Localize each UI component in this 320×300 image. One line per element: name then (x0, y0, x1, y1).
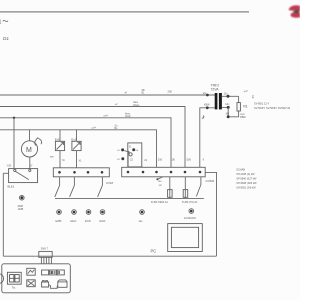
svg-text:PC: PC (151, 249, 157, 254)
contact K1 (55, 177, 60, 197)
twisted-wire hook mark (202, 116, 204, 118)
svg-text:KBW: KBW (204, 103, 210, 106)
wire tapB to tapC (227, 107, 229, 116)
svg-text:SH-2045 (A) kW: SH-2045 (A) kW (236, 173, 255, 176)
svg-text:SV-50/6T, SV-50/6T, SV50/3 44: SV-50/6T, SV-50/6T, SV50/3 44 (254, 106, 291, 110)
transformer primary bottom wire (200, 108, 215, 168)
battery lying icon (58, 280, 67, 287)
svg-text:Ta.: Ta. (12, 286, 16, 290)
Schumacher logo (289, 5, 300, 17)
fuse FU52 (168, 190, 173, 198)
display digit 8 (10, 275, 14, 282)
valve Ev3 feed wire (76, 130, 78, 142)
indicator icon fault (27, 280, 35, 287)
motor to switch wire (29, 157, 31, 169)
svg-text:EVB5: EVB5 (56, 221, 63, 223)
terminal node (73, 171, 76, 174)
terminal node (184, 171, 187, 174)
battery icon 1 (42, 270, 49, 275)
terminal node (127, 171, 130, 174)
terminal circle E2LD (72, 210, 77, 215)
svg-text:SCHAB: SCHAB (236, 169, 245, 172)
battery icon 3 (57, 270, 64, 275)
svg-text:una: una (91, 126, 96, 130)
terminal circle EV45 (86, 210, 91, 215)
svg-text:w/: w/ (124, 90, 128, 95)
svg-text:Gu: Gu (158, 180, 162, 183)
svg-text:DIN 7: DIN 7 (41, 247, 49, 251)
svg-text:BL: BL (142, 92, 146, 94)
relay D2 contact k6 (132, 148, 135, 151)
connector pin 2 (43, 257, 45, 264)
relay D2 contact k5 (121, 148, 124, 151)
svg-text:w/: w/ (114, 102, 118, 107)
motor brush symbol (35, 138, 42, 146)
svg-text:Gram: Gram (125, 115, 131, 118)
terminal node (155, 171, 158, 174)
wire R1 bottom to tap M3 (230, 111, 239, 117)
svg-text:VL: VL (79, 159, 83, 163)
svg-text:SH-5845 (S25 kW: SH-5845 (S25 kW (236, 182, 257, 185)
terminal circle EVB5 (57, 210, 62, 215)
PCB board inner (171, 227, 198, 247)
terminal circle EVAC (100, 210, 105, 215)
svg-text:ww: ww (50, 156, 54, 159)
svg-text:9: 9 (203, 158, 205, 162)
svg-text:RE: RE (251, 95, 254, 99)
PCB board outer (168, 224, 203, 252)
connector pin 1 (40, 257, 42, 264)
bottom rail wire (3, 255, 216, 257)
svg-text:500: 500 (187, 157, 192, 161)
contact K2 (70, 177, 75, 197)
terminal circle PCB in (189, 209, 194, 214)
svg-text:SP-5840 (S2T kW: SP-5840 (S2T kW (236, 178, 257, 181)
wire bus1 L1 (0, 94, 215, 96)
svg-text:D1: D1 (3, 36, 9, 41)
svg-text:22: 22 (130, 158, 133, 162)
indicator icon charge (27, 268, 35, 275)
battery icon 2 (50, 270, 57, 275)
wire bus3 L3 (0, 118, 171, 168)
svg-text:1: 1 (0, 20, 2, 26)
svg-text:E2LD: E2LD (71, 221, 77, 223)
transformer TRF2 core bars (215, 93, 218, 109)
svg-text:Nero: Nero (125, 112, 131, 115)
terminal node (58, 171, 61, 174)
terminal node (199, 171, 202, 174)
relay D2 arrow (124, 151, 129, 154)
svg-text:vd: vd (159, 184, 162, 187)
relay D2 box (128, 143, 142, 167)
top page border line (0, 11, 249, 13)
contact K4 (196, 177, 201, 197)
contact K3 (98, 177, 103, 197)
svg-text:Y20: Y20 (7, 163, 12, 167)
connector pin 3 (45, 257, 47, 264)
valve Ev3 output wire (76, 151, 78, 168)
svg-text:21: 21 (144, 158, 147, 162)
motor feed wire (29, 130, 31, 141)
terminal circle tuts (140, 210, 145, 215)
terminal node (101, 171, 104, 174)
wire bus4 L4 (0, 130, 157, 168)
svg-text:SV-85/1 12 V: SV-85/1 12 V (254, 102, 270, 106)
connector pin 5 (50, 257, 52, 264)
svg-text:BLE1: BLE1 (8, 184, 15, 188)
svg-text:EV45: EV45 (85, 221, 91, 223)
svg-text:ww: ww (203, 92, 207, 95)
svg-text:BBW: BBW (240, 117, 246, 119)
transformer secondary tap 12v (222, 95, 239, 97)
terminal S1 circle (20, 195, 25, 200)
svg-text:200: 200 (158, 157, 163, 161)
svg-text:t7: t7 (30, 163, 33, 167)
connector pin 4 (48, 257, 50, 264)
svg-text:una: una (103, 114, 108, 118)
fuse tap Gu/vd (156, 178, 158, 180)
common return wire (55, 197, 204, 199)
motor M1 (21, 141, 37, 157)
svg-text:R1: R1 (243, 104, 248, 108)
fuse FU53 (183, 190, 188, 198)
terminal node (142, 171, 145, 174)
svg-text:G2v: G2v (225, 103, 230, 106)
svg-text:k9: k9 (117, 159, 120, 161)
connector DIN 7 body (39, 251, 52, 257)
panel knob (0, 274, 4, 284)
display frame (7, 272, 21, 284)
svg-text:EVAC: EVAC (100, 220, 106, 223)
svg-text:Gham: Gham (133, 105, 139, 107)
relay D2 output wire (127, 152, 129, 167)
transformer secondary tap G2v (222, 106, 228, 108)
battery cable wire (49, 285, 58, 289)
terminal node (170, 171, 173, 174)
svg-text:M3: M3 (226, 113, 230, 116)
svg-text:M.: M. (62, 158, 65, 162)
terminal strip segment 1 (53, 168, 109, 177)
wire to left rail (3, 172, 8, 174)
node KBW (primary bottom) (206, 106, 209, 109)
svg-text:100: 100 (171, 157, 176, 161)
switch BLE1 box (9, 169, 38, 183)
svg-text:mar: mar (243, 89, 248, 93)
wire R1 branch (238, 96, 240, 102)
left rail wire (2, 173, 4, 256)
fuse FU53 lead (184, 177, 186, 190)
valve Ev5 output wire (59, 151, 61, 168)
terminal node (87, 171, 90, 174)
transformer secondary tap M3 (227, 115, 230, 118)
control panel enclosure (2, 264, 71, 293)
resistor R1 (237, 103, 240, 111)
wire strip end to right rail (205, 172, 216, 256)
svg-text:D.: D. (129, 144, 132, 148)
svg-text:M: M (26, 147, 32, 154)
svg-text:k6: k6 (136, 150, 139, 152)
display digit 8 (15, 275, 19, 282)
terminal strip segment 2 (122, 167, 206, 177)
svg-text:24.DK/LRN: 24.DK/LRN (184, 218, 196, 220)
wire bus2 L2 (0, 107, 185, 168)
svg-text:72VA: 72VA (211, 87, 220, 91)
svg-text:tuts: tuts (139, 220, 144, 223)
svg-text:140B: 140B (18, 208, 24, 211)
junction node on bus3 (13, 117, 15, 119)
node: bus1 to transformer primary (206, 94, 209, 97)
svg-text:FU53 (T0) A1: FU53 (T0) A1 (182, 200, 198, 204)
svg-text:SH-8051 (24) kW: SH-8051 (24) kW (236, 187, 256, 190)
relay D2 coil mark (129, 153, 132, 156)
svg-text:k5: k5 (117, 150, 120, 152)
svg-text:FU52 K963 A1: FU52 K963 A1 (151, 200, 168, 204)
fuse FU52 lead (169, 177, 171, 190)
valve Ev5 feed wire (59, 130, 61, 142)
svg-text:COM2: COM2 (206, 179, 215, 183)
relay D2 contact k9 (121, 157, 124, 160)
battery clamp icon (42, 281, 49, 287)
svg-text:200: 200 (168, 90, 173, 94)
svg-text:COM: COM (106, 181, 114, 185)
switch BLE1 feed wire (13, 118, 15, 169)
switch BLE1 contact (14, 169, 16, 171)
